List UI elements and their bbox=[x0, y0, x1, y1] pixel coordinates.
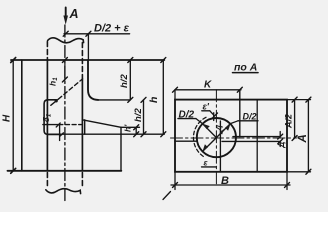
svg-text:h/2: h/2 bbox=[119, 74, 130, 88]
svg-text:A: A bbox=[297, 134, 309, 143]
dimension D/2+e bbox=[63, 23, 129, 61]
svg-text:B: B bbox=[221, 175, 229, 187]
svg-text:h': h' bbox=[123, 124, 133, 132]
extension line h' top bbox=[121, 126, 140, 128]
dimension A/2 bbox=[284, 97, 298, 140]
K extension line bbox=[174, 90, 176, 100]
wall left edge bbox=[21, 60, 23, 171]
rib plate lines in plan bbox=[222, 137, 280, 142]
slot in column wall (b1) bbox=[44, 100, 63, 136]
view arrow A bbox=[63, 7, 78, 25]
svg-text:A: A bbox=[69, 7, 79, 21]
plate hidden line through tube bbox=[43, 124, 83, 126]
divider edge in plan upper bbox=[239, 90, 241, 137]
svg-text:ε: ε bbox=[204, 158, 209, 168]
beam top line bbox=[11, 59, 164, 61]
corner break mark bbox=[163, 192, 171, 200]
bracket left edge bbox=[84, 120, 86, 134]
beam notch bottom line bbox=[98, 99, 130, 101]
svg-text:H: H bbox=[2, 114, 13, 122]
dimension B bbox=[171, 172, 290, 190]
svg-text:h: h bbox=[148, 97, 160, 103]
plate bottom extension bbox=[287, 171, 311, 173]
radial arrow lower-left bbox=[202, 138, 216, 152]
svg-text:ε': ε' bbox=[203, 102, 210, 112]
svg-text:h1: h1 bbox=[48, 77, 60, 86]
dimension h1 bbox=[48, 58, 68, 87]
bottom plate line bbox=[8, 170, 122, 172]
column top break wave bbox=[48, 38, 84, 43]
plate top extension bbox=[287, 99, 311, 101]
plate edge line left of circle bbox=[175, 140, 197, 142]
dimension delta in circle bbox=[214, 124, 224, 135]
column bottom break wave bbox=[46, 189, 81, 194]
dimension K bbox=[173, 80, 243, 93]
radial arrow D/2 upper-left bbox=[178, 110, 216, 138]
dimension h bbox=[148, 58, 166, 137]
svg-text:D/2: D/2 bbox=[179, 110, 195, 121]
svg-text:δ1: δ1 bbox=[41, 113, 53, 122]
dimension epsilon bottom bbox=[202, 118, 217, 168]
title po A bbox=[233, 62, 259, 74]
diagonal slot line bbox=[51, 79, 83, 105]
dimension epsilon prime top bbox=[202, 102, 218, 121]
tube circle bbox=[197, 118, 236, 157]
base plate rectangle bbox=[175, 100, 287, 172]
dimension H bbox=[2, 58, 16, 174]
horizontal centerline plan bbox=[171, 137, 297, 139]
beam end edge with fillet bbox=[88, 60, 98, 100]
dimension h' bbox=[123, 124, 139, 137]
vertical centerline plan bbox=[215, 90, 217, 185]
dimension A bbox=[297, 97, 311, 174]
svg-text:D/2: D/2 bbox=[243, 111, 257, 121]
extension to h dim bbox=[121, 133, 164, 135]
svg-text:K: K bbox=[204, 80, 212, 91]
rib end edge in circle bbox=[219, 121, 221, 172]
dimension h/2 upper bbox=[119, 58, 133, 103]
dimension delta rib thickness bbox=[277, 132, 286, 149]
node dot slot corner bbox=[55, 99, 58, 102]
column left edge bbox=[46, 42, 48, 189]
hidden arc bbox=[193, 117, 206, 157]
radial arrow D/2 upper-right bbox=[216, 111, 258, 137]
divider edge in plan bbox=[256, 100, 258, 172]
svg-text:h/2: h/2 bbox=[133, 108, 144, 122]
svg-text:по А: по А bbox=[234, 62, 257, 74]
bracket right edge bbox=[120, 127, 122, 171]
centerline column bbox=[64, 25, 66, 201]
svg-text:A/2: A/2 bbox=[284, 114, 294, 129]
column right edge bbox=[81, 43, 83, 189]
slot right edge vertical bbox=[59, 125, 61, 141]
bracket bottom line bbox=[47, 133, 121, 135]
svg-text:D/2 + ε: D/2 + ε bbox=[94, 23, 130, 35]
bracket slope bbox=[82, 120, 121, 128]
svg-text:Д: Д bbox=[277, 142, 286, 149]
dimension h/2 lower bbox=[133, 97, 146, 136]
